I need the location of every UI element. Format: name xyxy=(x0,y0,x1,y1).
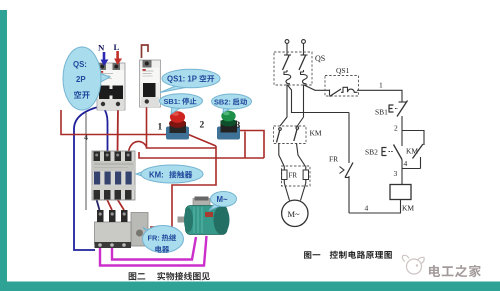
svg-text:KM:: KM: xyxy=(149,171,164,180)
push button SB2 green start xyxy=(217,111,240,140)
svg-text:SB1:: SB1: xyxy=(164,97,181,106)
motor circle xyxy=(282,200,308,226)
callout FR thermal relay xyxy=(143,226,184,253)
QS trip squiggle right xyxy=(301,72,308,84)
wire: navy contactor bottom-left to FR xyxy=(97,200,100,211)
push button SB1 red stop xyxy=(166,111,189,139)
wire left pole to KM contact xyxy=(280,85,287,127)
svg-text:QS: QS xyxy=(315,54,325,63)
QS pole left xyxy=(283,55,292,72)
svg-text:QS:: QS: xyxy=(73,60,87,69)
wire: red sweep into contactor post4 xyxy=(129,141,147,151)
svg-text:SB2: SB2 xyxy=(365,148,378,157)
breaker QS1 dashed box xyxy=(325,76,359,97)
svg-text:QS1: 1P: QS1: 1P xyxy=(167,75,197,84)
teal left border bar xyxy=(0,10,7,291)
svg-text:1: 1 xyxy=(379,81,383,90)
caption figure 1 xyxy=(304,251,311,259)
circuit breaker QS 2P body xyxy=(97,63,125,110)
svg-text:KM: KM xyxy=(402,204,414,213)
wire: contactor bottom to FR posts xyxy=(107,200,124,211)
push button SB2 NO xyxy=(382,131,402,169)
svg-text:SB2:: SB2: xyxy=(214,98,231,107)
KM aux contact xyxy=(413,144,424,169)
circuit breaker QS1 1P body xyxy=(140,60,161,107)
wire: red riser to SB1 xyxy=(61,110,166,135)
wire branch top xyxy=(402,131,424,146)
blue N arrow xyxy=(101,52,109,66)
FR heater dashed box xyxy=(282,166,311,186)
wire SB1 to node2 xyxy=(401,116,403,131)
svg-text:3: 3 xyxy=(236,121,241,131)
wire: thin dark control wire xyxy=(85,112,87,210)
wire right pole to KM contact xyxy=(297,85,303,127)
QS trip squiggle left xyxy=(284,72,291,84)
wire: maroon staple over QS1 top xyxy=(142,45,149,58)
svg-text:M~: M~ xyxy=(217,195,228,204)
KM coil xyxy=(390,185,411,200)
callout SB2 start xyxy=(212,94,252,113)
svg-text:L: L xyxy=(114,42,120,52)
red L arrow xyxy=(114,51,122,65)
callout M~ motor xyxy=(209,192,237,211)
svg-text:2: 2 xyxy=(394,124,398,133)
KM main contact left xyxy=(277,128,282,143)
svg-text:3: 3 xyxy=(394,169,398,178)
callout QS 2P air switch xyxy=(63,47,110,110)
svg-text:FR: FR xyxy=(329,155,338,164)
wire: red loop at SB2 right xyxy=(240,131,264,159)
svg-text:FR:: FR: xyxy=(148,234,160,243)
wire QS1 feed tap xyxy=(304,85,330,90)
motor M teal xyxy=(178,197,230,235)
wire node3 to coil xyxy=(401,169,403,185)
svg-text:FR: FR xyxy=(289,172,298,180)
svg-text:M~: M~ xyxy=(288,209,301,219)
svg-text:SB1: SB1 xyxy=(375,108,388,117)
wire: red SB1 to drop xyxy=(186,134,216,147)
svg-text:KM: KM xyxy=(310,129,322,138)
svg-text:N: N xyxy=(98,43,105,53)
watermark logo sketch xyxy=(402,255,424,274)
breaker QS dashed box xyxy=(274,52,312,85)
caption figure 2 xyxy=(129,272,137,280)
wire: magenta FR to motor 1 xyxy=(100,236,207,266)
svg-text:4: 4 xyxy=(365,204,369,213)
QS pole right xyxy=(299,55,308,72)
wire control branch tap xyxy=(288,85,350,113)
FR NC contact control xyxy=(340,113,354,214)
wire: blue N lead QS to contactor post2 xyxy=(103,107,108,152)
wire: magenta FR to motor 2 xyxy=(112,237,196,260)
wire: blue loop down far left to FR bottom xyxy=(74,106,102,250)
KM main contact right xyxy=(294,127,299,141)
supply leads xyxy=(287,44,304,56)
svg-text:4: 4 xyxy=(404,159,408,168)
wire 1 QS1 to SB1 xyxy=(357,90,402,102)
wire: red drop to KM area and FR xyxy=(150,146,216,227)
callout SB1 stop xyxy=(160,94,203,114)
thermal relay FR body xyxy=(95,210,149,248)
wire branch bottom xyxy=(402,168,421,170)
callout QS1 1P air switch xyxy=(160,69,220,92)
FR heater elements xyxy=(282,167,309,184)
svg-text:2P: 2P xyxy=(76,75,86,84)
push button SB1 NC xyxy=(389,101,408,117)
teal bottom border bar xyxy=(0,282,500,291)
contactor KM body xyxy=(92,151,135,200)
callout KM contactor xyxy=(136,165,203,183)
wire: red L lead QS to contactor post3 xyxy=(117,107,120,152)
KM main contacts dashed box xyxy=(274,126,307,144)
wires FR to motor xyxy=(284,183,306,201)
svg-text:1: 1 xyxy=(158,123,163,133)
svg-text:QS1: QS1 xyxy=(336,66,350,75)
svg-text:2: 2 xyxy=(200,121,205,131)
wires KM contacts to FR heater xyxy=(279,144,285,167)
wire coil bottom to wire4 xyxy=(349,200,401,214)
svg-text:KM: KM xyxy=(406,147,418,156)
QS1 switch and trip xyxy=(330,87,358,96)
supply terminal circles xyxy=(285,40,289,44)
watermark text xyxy=(429,265,440,277)
wire: red QS1 bottom down then right xyxy=(147,107,217,148)
wire: red bus under buttons to contactor coil terminal xyxy=(139,152,264,158)
